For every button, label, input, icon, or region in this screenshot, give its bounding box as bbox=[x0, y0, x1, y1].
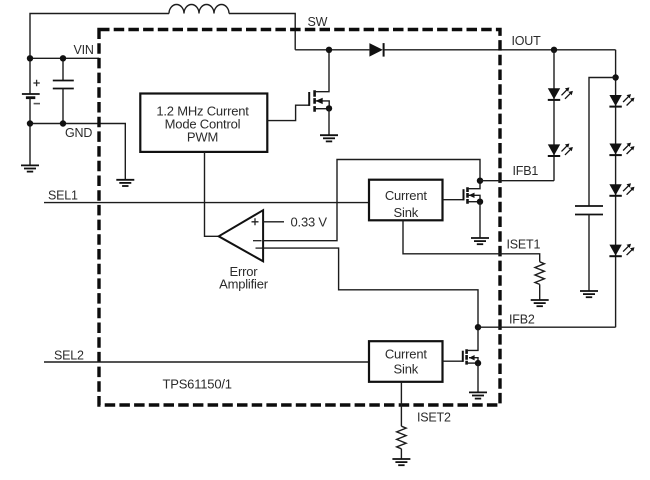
capacitor C1 bbox=[53, 58, 74, 123]
diode D1 bbox=[369, 43, 383, 57]
svg-text:Sink: Sink bbox=[394, 205, 419, 220]
svg-text:GND: GND bbox=[65, 126, 92, 140]
junction M1 source dot bbox=[326, 105, 332, 111]
svg-text:Current: Current bbox=[385, 347, 428, 362]
svg-text:Amplifier: Amplifier bbox=[219, 276, 269, 291]
junction GND cap dot bbox=[60, 120, 66, 126]
svg-text:ISET1: ISET1 bbox=[507, 238, 541, 252]
wire battery top to inductor bbox=[30, 14, 169, 59]
junction SW/drain dot bbox=[326, 47, 332, 53]
transistor M1 power NMOS bbox=[309, 50, 329, 112]
transistor M3 current sink 2 NMOS bbox=[443, 327, 479, 364]
wire PWM output to M1 gate bbox=[267, 105, 309, 120]
wire ISET2 from current sink 2 bbox=[400, 382, 402, 426]
wire SEL2 bbox=[44, 361, 369, 363]
ground internal GND bbox=[116, 180, 134, 186]
LED D6 bbox=[609, 183, 634, 196]
svg-text:ISET2: ISET2 bbox=[417, 411, 451, 425]
LED D7 bbox=[609, 244, 634, 257]
current sink block 1 bbox=[369, 180, 443, 221]
svg-text:Sink: Sink bbox=[394, 362, 419, 377]
ground M2 bbox=[471, 238, 489, 244]
svg-text:SEL1: SEL1 bbox=[48, 189, 78, 203]
svg-text:IOUT: IOUT bbox=[512, 34, 542, 48]
junction IFB1 dot bbox=[477, 178, 483, 184]
wire M1 source to ground bbox=[328, 108, 330, 135]
ground R2 bbox=[392, 459, 410, 465]
svg-text:IFB1: IFB1 bbox=[513, 164, 539, 178]
capacitor C2 bbox=[575, 206, 603, 291]
wire M2 source to ground bbox=[479, 202, 481, 238]
junction M3 source dot bbox=[475, 360, 481, 366]
wire LED string 2 bbox=[615, 50, 617, 327]
junction M2 source dot bbox=[477, 199, 483, 205]
svg-text:0.33 V: 0.33 V bbox=[291, 215, 328, 230]
LED D5 bbox=[609, 143, 634, 156]
wire IFB2 bbox=[478, 326, 616, 328]
current sink block 2 bbox=[369, 341, 443, 382]
wire VIN bbox=[30, 57, 99, 59]
svg-text:Current: Current bbox=[385, 188, 428, 203]
ground R1 bbox=[531, 300, 549, 306]
junction GND battery dot bbox=[27, 120, 33, 126]
svg-text:IFB2: IFB2 bbox=[509, 313, 535, 327]
inductor L1 bbox=[169, 5, 229, 14]
wire error amp + input to 0.33V bbox=[263, 221, 284, 223]
wire GND bbox=[30, 124, 125, 180]
wire PWM bottom to error amp output bbox=[205, 152, 219, 236]
ground C2 bbox=[580, 291, 598, 297]
junction VIN battery dot bbox=[27, 55, 33, 61]
wire IFB1 bbox=[480, 180, 554, 182]
junction IFB2 dot bbox=[475, 324, 481, 330]
wire LED string 1 bbox=[553, 50, 555, 181]
junction IOUT dot bbox=[551, 47, 557, 53]
wire R2 to ground bbox=[400, 449, 402, 459]
op-amp error amplifier bbox=[219, 210, 263, 261]
ground M3 bbox=[469, 392, 487, 398]
IC boundary TPS61150/1 dashed box bbox=[99, 30, 500, 406]
svg-text:SEL2: SEL2 bbox=[54, 349, 84, 363]
wire R1 to ground bbox=[539, 284, 541, 300]
junction string2/C2 dot bbox=[612, 74, 618, 80]
wire C2 branch bbox=[589, 78, 616, 207]
ground battery bbox=[21, 165, 39, 171]
svg-text:VIN: VIN bbox=[74, 43, 94, 57]
LED D3 bbox=[548, 144, 573, 157]
junction VIN cap dot bbox=[60, 55, 66, 61]
resistor R2 ISET2 bbox=[397, 426, 406, 449]
resistor R1 ISET1 bbox=[535, 262, 544, 285]
wire diode to IOUT to LED string 2 top bbox=[384, 49, 616, 51]
LED D4 bbox=[609, 94, 634, 107]
wire inductor to SW pin bbox=[229, 14, 295, 50]
ground M1 bbox=[320, 135, 338, 141]
wire battery to ground bbox=[29, 124, 31, 166]
transistor M2 current sink 1 NMOS bbox=[443, 181, 481, 204]
PWM block U1 bbox=[140, 94, 267, 152]
svg-text:PWM: PWM bbox=[187, 130, 218, 145]
wire ISET1 from current sink 1 bbox=[403, 220, 540, 261]
svg-text:SW: SW bbox=[308, 15, 328, 29]
wire M3 source to ground bbox=[477, 363, 479, 392]
wire feedback IFB2 to error amp minus 2 bbox=[263, 248, 478, 327]
wire feedback IFB1 to error amp minus 1 bbox=[263, 160, 480, 241]
svg-text:TPS61150/1: TPS61150/1 bbox=[163, 377, 232, 392]
wire SEL1 bbox=[44, 202, 369, 204]
wire SW node bbox=[295, 49, 369, 51]
LED D2 bbox=[548, 87, 573, 100]
battery V1 bbox=[22, 58, 40, 123]
